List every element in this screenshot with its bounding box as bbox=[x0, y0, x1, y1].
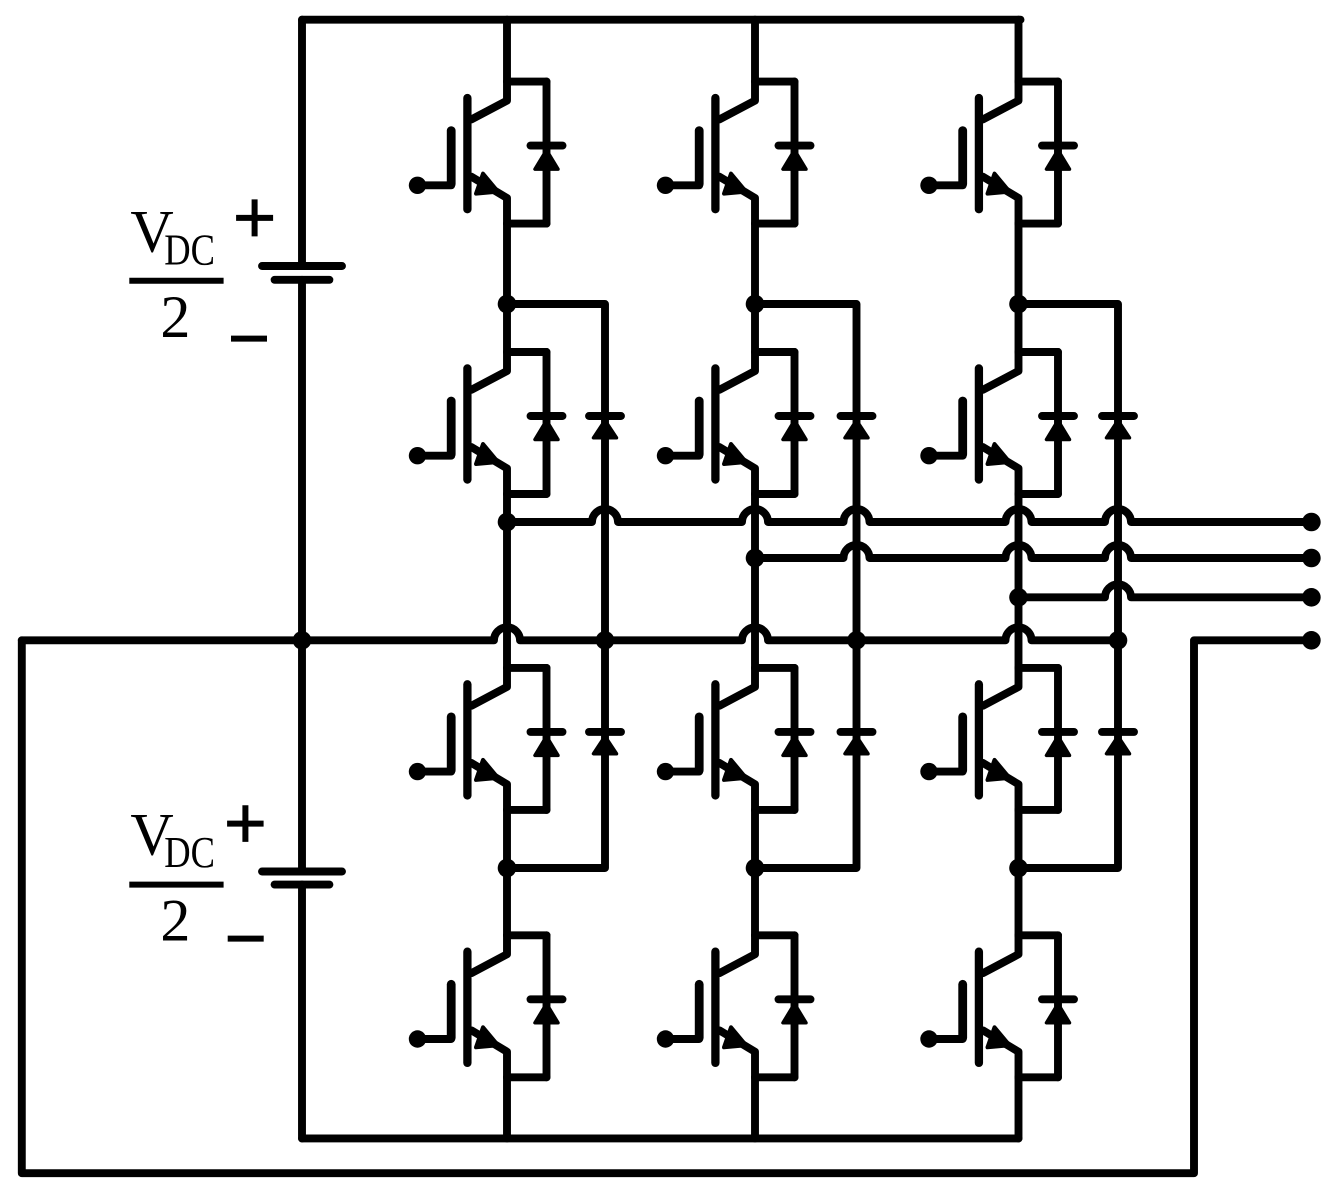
wire: leg B from +rail to S1 bbox=[751, 20, 759, 82]
wire: leg A from S4 to -rail bbox=[503, 1077, 511, 1138]
transistor S3C (IGBT) with diode bbox=[920, 668, 1074, 810]
transistor S2A (IGBT) with diode bbox=[409, 352, 563, 494]
wire: positive DC rail bbox=[302, 16, 1021, 24]
wire: DC bus below capacitor C2 bbox=[298, 885, 306, 1139]
wire: DC bus between capacitors C1 and C2 bbox=[298, 280, 306, 872]
transistor S1C (IGBT, leg C top) with diode bbox=[920, 82, 1074, 224]
transistor S3A (IGBT) with diode bbox=[409, 668, 563, 810]
clamp diode D2C (leg C lower) bbox=[1102, 732, 1134, 754]
neutral / leg B clamp branch junction bbox=[847, 631, 866, 650]
wire: leg C from +rail to S1 bbox=[1015, 20, 1023, 82]
neutral / leg A clamp branch junction bbox=[596, 631, 615, 650]
wire: leg B from S4 to -rail bbox=[751, 1077, 759, 1138]
capacitor C1 (VDC/2 upper source) positive plate bbox=[262, 262, 342, 270]
phase A tap junction bbox=[498, 513, 517, 532]
capacitor C1 negative plate bbox=[275, 276, 330, 284]
wire: leg C clamp-diode branch bbox=[1019, 304, 1119, 868]
capacitor C2 (VDC/2 lower source) positive plate bbox=[262, 868, 342, 876]
transistor S1B (IGBT, leg B top) with diode bbox=[657, 82, 811, 224]
svg-text:DC: DC bbox=[164, 828, 215, 877]
wire: leg A from S2 to S3 through phase tap bbox=[503, 494, 511, 668]
polarity plus sign (lower source) bbox=[227, 805, 264, 842]
label VDC/2 (lower source) : fraction bar bbox=[129, 882, 223, 888]
clamp diode D2B (leg B lower) bbox=[841, 732, 873, 754]
wire: leg C from S2 to S3 through phase tap bbox=[1015, 494, 1023, 668]
wire: leg C from S3 to S4 through node C2 bbox=[1015, 810, 1023, 935]
phase C output terminal bbox=[1302, 588, 1321, 607]
wire: phase C output line with crossover hops bbox=[1019, 584, 1312, 597]
wire: negative DC rail bbox=[302, 1134, 1019, 1142]
neutral / DC midpoint junction bbox=[293, 631, 312, 650]
transistor S4C (IGBT, leg C bottom) with diode bbox=[920, 935, 1074, 1077]
wire: leg B from S2 to S3 through phase tap bbox=[751, 494, 759, 668]
clamp diode D2A (leg A lower) bbox=[589, 732, 621, 754]
node C1 junction (S1C emitter / clamp branch) bbox=[1009, 295, 1028, 314]
node B1 junction (S1B emitter / clamp branch) bbox=[746, 295, 765, 314]
wire: leg C from S1 to S2 through node C1 bbox=[1015, 224, 1023, 352]
capacitor C2 negative plate bbox=[275, 881, 330, 889]
polarity minus sign (lower source) bbox=[228, 936, 264, 942]
wire: leg B clamp-diode branch bbox=[755, 304, 857, 868]
label VDC/2 (upper source) : fraction bar bbox=[129, 278, 223, 284]
node A2 junction (S3A emitter / clamp branch) bbox=[498, 859, 517, 878]
wire: neutral return loop to fourth output terminal bbox=[22, 640, 1312, 1173]
phase C tap junction bbox=[1009, 588, 1028, 607]
wire: leg B from S1 to S2 through node B1 bbox=[751, 224, 759, 352]
wire: phase B output line with crossover hops bbox=[755, 545, 1311, 558]
polarity plus sign (upper source) bbox=[236, 199, 273, 236]
wire: leg A clamp-diode branch bbox=[507, 304, 605, 868]
clamp diode D1A (leg A upper) bbox=[589, 416, 621, 438]
wire: phase A output line with crossover hops bbox=[507, 509, 1311, 522]
svg-text:DC: DC bbox=[164, 225, 215, 274]
wire: leg A from S1 to S2 through node A1 bbox=[503, 224, 511, 352]
clamp diode D1B (leg B upper) bbox=[841, 416, 873, 438]
phase B tap junction bbox=[746, 549, 765, 568]
neutral output terminal bbox=[1302, 631, 1321, 650]
wire: leg A from +rail to S1 bbox=[503, 20, 511, 82]
wire: DC bus above capacitor C1 bbox=[298, 20, 306, 266]
transistor S3B (IGBT) with diode bbox=[657, 668, 811, 810]
transistor S2B (IGBT) with diode bbox=[657, 352, 811, 494]
svg-text:2: 2 bbox=[160, 888, 190, 954]
neutral / leg C clamp branch junction bbox=[1109, 631, 1128, 650]
wire: leg B from S3 to S4 through node B2 bbox=[751, 810, 759, 935]
transistor S4B (IGBT, leg B bottom) with diode bbox=[657, 935, 811, 1077]
polarity minus sign (upper source) bbox=[231, 336, 267, 342]
phase B output terminal bbox=[1302, 549, 1321, 568]
wire: neutral-point bus with crossover hops bbox=[22, 627, 1118, 640]
node C2 junction (S3C emitter / clamp branch) bbox=[1009, 859, 1028, 878]
node B2 junction (S3B emitter / clamp branch) bbox=[746, 859, 765, 878]
transistor S2C (IGBT) with diode bbox=[920, 352, 1074, 494]
node A1 junction (S1A emitter / clamp branch) bbox=[498, 295, 517, 314]
wire: leg A from S3 to S4 through node A2 bbox=[503, 810, 511, 935]
svg-text:2: 2 bbox=[160, 284, 190, 350]
transistor S4A (IGBT, leg A bottom) with diode bbox=[409, 935, 563, 1077]
transistor S1A (IGBT, leg A top) with diode bbox=[409, 82, 563, 224]
phase A output terminal bbox=[1302, 513, 1321, 532]
wire: leg C from S4 to -rail bbox=[1015, 1077, 1023, 1138]
clamp diode D1C (leg C upper) bbox=[1102, 416, 1134, 438]
